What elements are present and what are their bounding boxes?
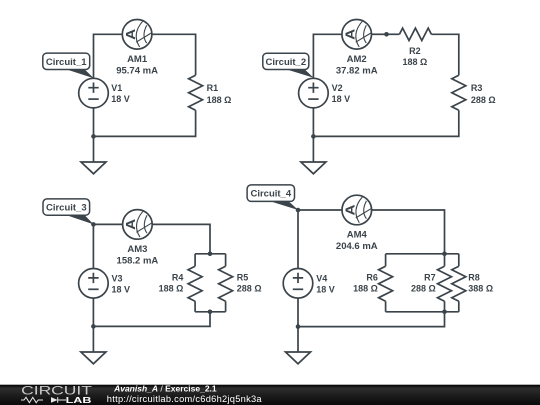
- resistor R2: [399, 28, 431, 40]
- wire V1 bottom to rail: [93, 108, 95, 136]
- svg-text:Avanish_A / Exercise_2.1: Avanish_A / Exercise_2.1: [113, 383, 217, 393]
- svg-text:R6: R6: [366, 272, 378, 282]
- wire R8 bottom stub: [458, 301, 460, 312]
- svg-text:R8: R8: [468, 272, 480, 282]
- svg-text:V2: V2: [332, 83, 343, 93]
- junction node circuit3 top corner: [91, 222, 96, 227]
- svg-text:158.2 mA: 158.2 mA: [117, 255, 159, 266]
- resistor R5: [219, 266, 233, 301]
- wire R8 top stub: [458, 254, 460, 266]
- svg-text:18 V: 18 V: [112, 285, 131, 295]
- ground circuit 4: [286, 352, 311, 364]
- wire R2 right to R3 top: [431, 34, 458, 75]
- resistor R4: [188, 266, 202, 301]
- svg-text:R4: R4: [172, 272, 184, 282]
- svg-text:R7: R7: [424, 272, 436, 282]
- ground circuit 2: [301, 162, 326, 174]
- svg-text:288 Ω: 288 Ω: [471, 95, 496, 105]
- wire R5 top stub: [225, 254, 227, 266]
- wire V4 bottom to rail: [297, 298, 299, 327]
- wire R1 bottom to V1 bottom (bottom rail): [94, 110, 196, 136]
- junction node parallel top c4: [442, 252, 447, 257]
- wire parallel bottom to V4 bottom (bottom rail): [298, 312, 445, 327]
- wire rail to ground: [93, 136, 95, 162]
- wire bottom bracket R6-R8: [386, 311, 459, 313]
- wire R7 top stub: [444, 254, 446, 266]
- wire AM3 right to parallel top node: [152, 224, 210, 253]
- junction node AM2-R2: [384, 32, 389, 37]
- wire V2 top to AM2 left: [313, 34, 342, 78]
- svg-text:AM2: AM2: [347, 54, 367, 65]
- svg-text:V3: V3: [112, 273, 123, 283]
- junction node parallel top: [208, 252, 213, 257]
- voltage source V2: [299, 78, 329, 108]
- svg-text:18 V: 18 V: [332, 94, 351, 104]
- ammeter AM4: [342, 195, 372, 225]
- svg-text:AM4: AM4: [347, 230, 368, 241]
- wire R6 bottom stub: [385, 301, 387, 312]
- svg-text:Circuit_3: Circuit_3: [46, 203, 87, 214]
- svg-text:R2: R2: [409, 46, 421, 56]
- svg-text:188 Ω: 188 Ω: [403, 57, 428, 67]
- wire top bracket R6-R8: [386, 253, 459, 255]
- svg-text:V1: V1: [111, 83, 122, 93]
- ammeter AM2: [342, 20, 372, 50]
- logo squiggle resistor and diode: [21, 397, 43, 402]
- wire V3 top to corner: [92, 224, 94, 268]
- svg-text:Circuit_1: Circuit_1: [46, 57, 87, 68]
- junction node circuit4 top corner: [296, 208, 301, 213]
- wire R7 bottom stub: [444, 301, 446, 312]
- wire AM1 right to R1 top: [152, 34, 196, 75]
- ammeter AM1: [122, 20, 152, 50]
- wire R4 bottom stub: [194, 301, 196, 312]
- svg-text:AM1: AM1: [127, 54, 148, 65]
- node label Circuit_2 bubble: [263, 53, 314, 78]
- voltage source V1: [79, 78, 109, 108]
- svg-text:288 Ω: 288 Ω: [237, 284, 262, 294]
- resistor R6: [379, 266, 393, 301]
- ground circuit 1: [81, 162, 106, 174]
- wire V2 bottom to rail: [312, 108, 314, 136]
- junction node parallel bottom: [208, 310, 213, 315]
- node label Circuit_3 bubble: [43, 199, 94, 225]
- svg-text:95.74 mA: 95.74 mA: [116, 66, 158, 77]
- wire V4 top to corner: [297, 210, 299, 269]
- footer bar: [0, 385, 540, 405]
- svg-text:188 Ω: 188 Ω: [207, 95, 232, 105]
- wire rail to ground: [92, 326, 94, 352]
- wire corner to AM3 left: [93, 223, 122, 225]
- resistor R1: [189, 75, 203, 110]
- svg-text:Circuit_2: Circuit_2: [265, 57, 306, 68]
- svg-text:V4: V4: [316, 273, 327, 283]
- svg-text:188 Ω: 188 Ω: [159, 284, 184, 294]
- wire AM2 right to node: [372, 33, 387, 35]
- resistor R7: [438, 266, 452, 301]
- wire R6 top stub: [385, 254, 387, 266]
- svg-text:188 Ω: 188 Ω: [353, 284, 378, 294]
- svg-text:http://circuitlab.com/c6d6h2jq: http://circuitlab.com/c6d6h2jq5nk3a: [107, 394, 263, 404]
- logo CIRCUIT text: [21, 385, 92, 397]
- junction node circuit2 bottom: [311, 134, 316, 139]
- resistor R3: [452, 75, 466, 110]
- wire rail to ground: [312, 136, 314, 162]
- junction node circuit4 bottom: [296, 324, 301, 329]
- wire top bracket R4-R5: [195, 253, 226, 255]
- wire R3 bottom to V2 bottom (bottom rail): [313, 110, 458, 136]
- svg-text:18 V: 18 V: [316, 285, 335, 295]
- wire R5 bottom stub: [225, 301, 227, 312]
- wire bottom bracket R4-R5: [195, 311, 226, 313]
- junction node circuit1 bottom: [91, 134, 96, 139]
- wire rail to ground: [297, 327, 299, 352]
- logo LAB text: [66, 396, 92, 405]
- wire node to R2 left: [387, 33, 400, 35]
- voltage source V3: [79, 269, 109, 299]
- junction node circuit3 bottom: [91, 324, 96, 329]
- svg-text:204.6 mA: 204.6 mA: [336, 241, 378, 252]
- wire V3 bottom to rail: [92, 298, 94, 326]
- svg-text:AM3: AM3: [127, 244, 147, 255]
- wire parallel bottom to V3 bottom (bottom rail): [93, 312, 210, 327]
- svg-text:R1: R1: [207, 83, 219, 93]
- node label Circuit_4 bubble: [247, 185, 298, 210]
- wire V1 top to AM1 left: [94, 34, 123, 78]
- svg-text:R3: R3: [471, 83, 483, 93]
- svg-text:388 Ω: 388 Ω: [468, 284, 493, 294]
- ground circuit 3: [81, 352, 106, 364]
- svg-text:18 V: 18 V: [111, 94, 130, 104]
- svg-text:LAB: LAB: [66, 396, 92, 405]
- resistor R8: [452, 266, 466, 301]
- junction node parallel bottom c4: [442, 310, 447, 315]
- ammeter AM3: [123, 210, 153, 240]
- svg-text:288 Ω: 288 Ω: [411, 284, 436, 294]
- wire AM4 right to parallel top node: [372, 210, 445, 254]
- node label Circuit_1 bubble: [43, 53, 94, 78]
- voltage source V4: [283, 269, 313, 299]
- wire R4 top stub: [194, 254, 196, 266]
- wire corner to AM4 left: [298, 209, 342, 211]
- svg-text:Circuit_4: Circuit_4: [250, 189, 291, 200]
- svg-text:37.82 mA: 37.82 mA: [336, 66, 378, 77]
- svg-text:R5: R5: [237, 272, 249, 282]
